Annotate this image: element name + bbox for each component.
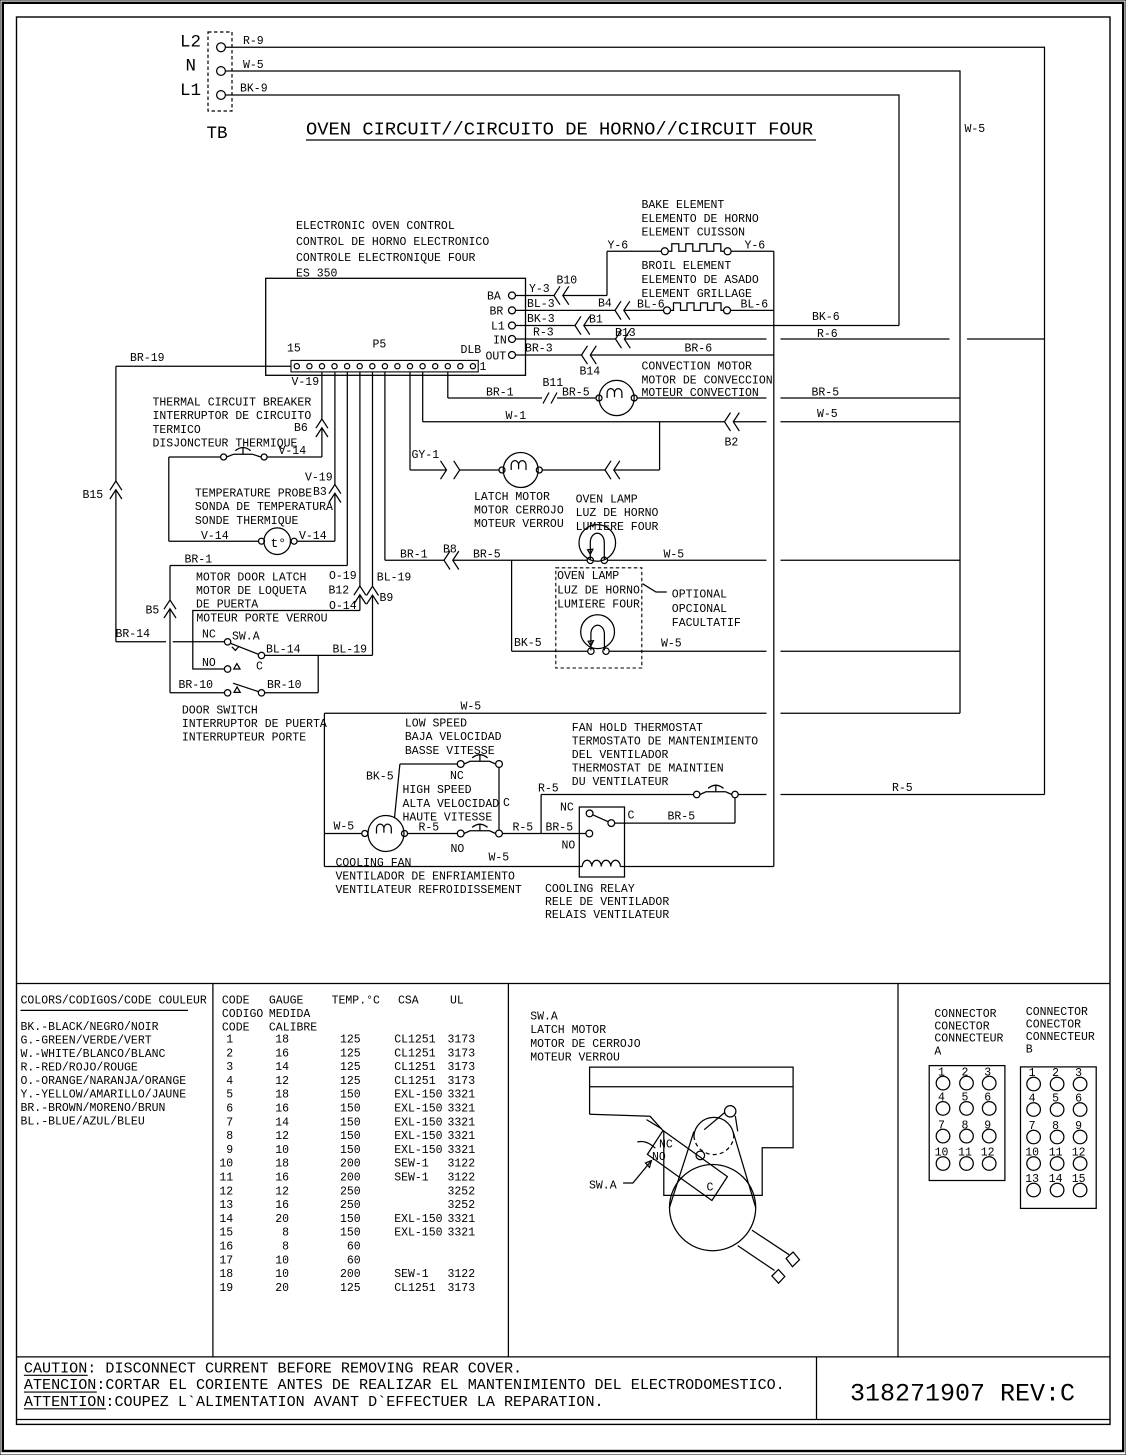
svg-text:NC: NC <box>202 629 216 642</box>
svg-text:TERMICO: TERMICO <box>153 424 201 437</box>
svg-text:V-14: V-14 <box>201 530 229 543</box>
svg-text:MOTEUR PORTE VERROU: MOTEUR PORTE VERROU <box>196 613 327 626</box>
svg-text:6: 6 <box>226 1103 233 1116</box>
connector P5 strip <box>291 360 478 372</box>
svg-text:BK-9: BK-9 <box>240 83 268 96</box>
svg-text:250: 250 <box>340 1199 361 1212</box>
svg-text:V-19: V-19 <box>292 376 320 389</box>
optional oven lamp <box>557 570 640 654</box>
schematic title <box>306 119 816 141</box>
svg-text:15: 15 <box>287 343 301 356</box>
svg-text:12: 12 <box>275 1185 289 1198</box>
svg-text:TEMPERATURE PROBE: TEMPERATURE PROBE <box>195 488 312 501</box>
motor door latch box outline <box>193 611 360 670</box>
svg-text:3321: 3321 <box>448 1089 476 1102</box>
thermal circuit breaker <box>153 397 322 461</box>
svg-text:2: 2 <box>962 1066 969 1079</box>
connector A pin block <box>929 1066 1005 1181</box>
table divider 1 <box>212 984 214 1357</box>
svg-text:NC: NC <box>659 1139 673 1152</box>
pin BR <box>490 306 516 319</box>
svg-text:W-1: W-1 <box>506 410 527 423</box>
node junction to optional lamp <box>511 560 513 651</box>
svg-text:16: 16 <box>275 1103 289 1116</box>
svg-text:MOTEUR VERROU: MOTEUR VERROU <box>474 518 564 531</box>
motor door latch label <box>196 571 328 625</box>
svg-text:B3: B3 <box>313 486 327 499</box>
svg-text:SW.A: SW.A <box>589 1180 617 1193</box>
svg-text:NC: NC <box>450 770 464 783</box>
svg-text:CONNECTEUR: CONNECTEUR <box>1026 1031 1095 1044</box>
low speed NC contact <box>450 755 502 783</box>
svg-text:10: 10 <box>1025 1147 1039 1160</box>
connector B12 chevrons <box>354 586 366 604</box>
svg-text:3122: 3122 <box>448 1158 476 1171</box>
svg-text:EXL-150: EXL-150 <box>394 1130 442 1143</box>
svg-text:15: 15 <box>219 1227 233 1240</box>
svg-text:ELEMENT GRILLAGE: ELEMENT GRILLAGE <box>642 288 753 301</box>
relay coil on W-5 return <box>324 851 773 866</box>
svg-text:LUZ DE HORNO: LUZ DE HORNO <box>557 584 640 597</box>
svg-text:W-5: W-5 <box>664 549 685 562</box>
svg-text:60: 60 <box>347 1254 361 1267</box>
wire W-5 from N to right and down <box>225 59 985 713</box>
svg-text:B6: B6 <box>294 422 308 435</box>
svg-text:B14: B14 <box>580 366 601 379</box>
svg-text:ELEMENTO DE ASADO: ELEMENTO DE ASADO <box>642 274 759 287</box>
bake element <box>608 199 774 255</box>
svg-text:GAUGE: GAUGE <box>269 995 304 1008</box>
svg-text:BK.-BLACK/NEGRO/NOIR: BK.-BLACK/NEGRO/NOIR <box>21 1021 159 1034</box>
svg-text:150: 150 <box>340 1103 361 1116</box>
svg-text:3321: 3321 <box>448 1130 476 1143</box>
svg-text:150: 150 <box>340 1089 361 1102</box>
svg-text:P5: P5 <box>373 339 387 352</box>
svg-text:DU VENTILATEUR: DU VENTILATEUR <box>572 776 669 789</box>
svg-text:W.-WHITE/BLANCO/BLANC: W.-WHITE/BLANCO/BLANC <box>21 1048 166 1061</box>
svg-text:3252: 3252 <box>448 1185 476 1198</box>
svg-text:EXL-150: EXL-150 <box>394 1144 442 1157</box>
svg-text:11: 11 <box>219 1172 233 1185</box>
connector B label <box>1026 1006 1095 1056</box>
svg-text:W-5: W-5 <box>334 821 355 834</box>
svg-text:B9: B9 <box>380 592 394 605</box>
svg-text:17: 17 <box>219 1254 233 1267</box>
hub pin <box>696 1151 705 1160</box>
svg-text:NO: NO <box>652 1151 666 1164</box>
svg-text:7: 7 <box>226 1116 233 1129</box>
svg-text:10: 10 <box>935 1147 949 1160</box>
svg-text:8: 8 <box>282 1227 289 1240</box>
svg-text:NO: NO <box>562 840 576 853</box>
wire R-5 / BR-5 to cooling relay <box>502 821 586 834</box>
svg-text:B: B <box>1026 1043 1033 1056</box>
svg-text:4: 4 <box>226 1075 233 1088</box>
svg-text:BR-1: BR-1 <box>486 386 514 399</box>
svg-text:BASSE VITESSE: BASSE VITESSE <box>405 745 495 758</box>
wire V-19 pin 12 drop with connector B3 <box>305 372 335 541</box>
svg-text:MOTOR DE LOQUETA: MOTOR DE LOQUETA <box>196 585 307 598</box>
svg-text:5: 5 <box>1052 1093 1059 1106</box>
wire BR-19 from P5 pin 15 side to left drop <box>116 352 291 642</box>
svg-text:13: 13 <box>1025 1173 1039 1186</box>
svg-text:NO: NO <box>202 657 216 670</box>
svg-text:10: 10 <box>219 1158 233 1171</box>
svg-text:18: 18 <box>275 1089 289 1102</box>
svg-text:18: 18 <box>275 1158 289 1171</box>
svg-text:OVEN CIRCUIT//CIRCUITO DE HORN: OVEN CIRCUIT//CIRCUITO DE HORNO//CIRCUIT… <box>306 119 813 141</box>
wire BR-14 (dashed run to latch box) <box>116 628 193 642</box>
svg-text:C: C <box>707 1181 714 1194</box>
riser R-5 to fan hold thermostat <box>538 783 694 834</box>
svg-text:BA: BA <box>487 291 501 304</box>
temperature probe <box>169 457 335 555</box>
svg-text:CONECTOR: CONECTOR <box>1026 1019 1081 1032</box>
svg-text:CONTROL DE HORNO ELECTRONICO: CONTROL DE HORNO ELECTRONICO <box>296 236 489 249</box>
svg-text:OPTIONAL: OPTIONAL <box>672 589 727 602</box>
svg-text:4: 4 <box>1029 1093 1036 1106</box>
svg-text:R-5: R-5 <box>538 783 559 796</box>
svg-text:B12: B12 <box>329 585 350 598</box>
svg-text:16: 16 <box>275 1172 289 1185</box>
connector B pin block <box>1021 1067 1097 1209</box>
wire BR-5 convection motor to W-5 bus <box>637 386 960 399</box>
svg-text:2: 2 <box>1052 1067 1059 1080</box>
svg-text:CAUTION: DISCONNECT CURRENT BE: CAUTION: DISCONNECT CURRENT BEFORE REMOV… <box>24 1359 522 1377</box>
svg-text:3321: 3321 <box>448 1227 476 1240</box>
svg-text:BR: BR <box>490 306 504 319</box>
fan hold thermostat <box>572 722 758 798</box>
svg-text:t°: t° <box>271 536 287 551</box>
svg-text:ELECTRONIC OVEN CONTROL: ELECTRONIC OVEN CONTROL <box>296 220 455 233</box>
svg-text:C: C <box>256 661 263 674</box>
latch bracket outline <box>590 1067 794 1195</box>
caution text <box>24 1359 785 1411</box>
svg-text:BL.-BLUE/AZUL/BLEU: BL.-BLUE/AZUL/BLEU <box>21 1116 145 1129</box>
svg-text:CONNECTOR: CONNECTOR <box>934 1008 996 1021</box>
svg-text:150: 150 <box>340 1213 361 1226</box>
svg-text:12: 12 <box>981 1147 995 1160</box>
svg-text:BR-3: BR-3 <box>525 343 553 356</box>
svg-text:COOLING RELAY: COOLING RELAY <box>545 883 635 896</box>
svg-text:EXL-150: EXL-150 <box>394 1116 442 1129</box>
svg-text:INTERRUPTOR DE CIRCUITO: INTERRUPTOR DE CIRCUITO <box>153 410 312 423</box>
svg-text:G.-GREEN/VERDE/VERT: G.-GREEN/VERDE/VERT <box>21 1035 152 1048</box>
wire latch motor to oven lamp branch with riser to W-1 <box>542 422 659 470</box>
svg-text:9: 9 <box>984 1119 991 1132</box>
pin L1 <box>491 321 516 334</box>
svg-text:CONNECTOR: CONNECTOR <box>1026 1006 1088 1019</box>
part number divider <box>816 1357 818 1420</box>
svg-text:EXL-150: EXL-150 <box>394 1213 442 1226</box>
svg-text:16: 16 <box>275 1047 289 1060</box>
connector B14 <box>580 346 601 379</box>
svg-text:15: 15 <box>1072 1173 1086 1186</box>
wire GY-1 from pin 6 to latch motor <box>410 372 499 470</box>
svg-text:COLORS/CODIGOS/CODE COULEUR: COLORS/CODIGOS/CODE COULEUR <box>21 995 207 1008</box>
svg-text:R-6: R-6 <box>817 328 838 341</box>
svg-text:14: 14 <box>1049 1173 1063 1186</box>
svg-text:SONDE THERMIQUE: SONDE THERMIQUE <box>195 515 299 528</box>
connector B5 chevrons <box>164 600 176 618</box>
svg-text:W-5: W-5 <box>243 59 264 72</box>
svg-text:O-19: O-19 <box>329 570 357 583</box>
svg-text:3173: 3173 <box>448 1034 476 1047</box>
svg-text:DOOR SWITCH: DOOR SWITCH <box>182 704 258 717</box>
svg-text:R-3: R-3 <box>533 327 554 340</box>
svg-text:L1: L1 <box>491 321 505 334</box>
svg-text:BK-6: BK-6 <box>812 311 840 324</box>
svg-text:16: 16 <box>219 1241 233 1254</box>
svg-text:A: A <box>934 1045 941 1058</box>
svg-text:3122: 3122 <box>448 1268 476 1281</box>
caution strip rules <box>17 1357 1111 1420</box>
connector B9 chevrons <box>367 586 379 604</box>
cooling fan motor <box>324 816 522 898</box>
svg-text:14: 14 <box>275 1116 289 1129</box>
svg-text:BR-1: BR-1 <box>400 549 428 562</box>
svg-text:RELE DE VENTILADOR: RELE DE VENTILADOR <box>545 896 669 909</box>
wire Y-3 from BA pin with riser to bake element <box>516 251 662 296</box>
svg-text:3173: 3173 <box>448 1047 476 1060</box>
svg-text:B11: B11 <box>543 377 564 390</box>
speed selector common C <box>499 767 510 830</box>
svg-text:GY-1: GY-1 <box>412 449 440 462</box>
svg-text:TB: TB <box>207 124 228 144</box>
svg-text:R-9: R-9 <box>243 35 264 48</box>
connector B10 <box>554 275 577 305</box>
svg-text:3: 3 <box>984 1066 991 1079</box>
svg-text:LUZ DE HORNO: LUZ DE HORNO <box>576 507 659 520</box>
svg-text:9: 9 <box>226 1144 233 1157</box>
svg-text:W-5: W-5 <box>461 701 482 714</box>
svg-text:C: C <box>628 810 635 823</box>
cooling relay <box>545 802 669 923</box>
svg-text:W-5: W-5 <box>661 638 682 651</box>
latch cam (pear shape) <box>669 1117 755 1250</box>
svg-text:125: 125 <box>340 1075 361 1088</box>
svg-text:TEMP.°C: TEMP.°C <box>332 995 380 1008</box>
svg-text:CONTROLE ELECTRONIQUE FOUR: CONTROLE ELECTRONIQUE FOUR <box>296 252 476 265</box>
svg-text:10: 10 <box>275 1268 289 1281</box>
svg-text:150: 150 <box>340 1130 361 1143</box>
svg-text:16: 16 <box>275 1199 289 1212</box>
svg-text:4: 4 <box>938 1092 945 1105</box>
svg-text:CL1251: CL1251 <box>394 1047 436 1060</box>
svg-text:INTERRUPTOR DE PUERTA: INTERRUPTOR DE PUERTA <box>182 718 327 731</box>
wire gauge table header <box>222 995 464 1035</box>
svg-text:3: 3 <box>226 1061 233 1074</box>
wire O-19 / O-14 pin 10 drop with connector B12 <box>329 372 360 613</box>
connector chevrons on lamp branch <box>605 461 620 479</box>
svg-text:BR-5: BR-5 <box>546 821 574 834</box>
svg-text:ATENCION:CORTAR EL CORIENTE AN: ATENCION:CORTAR EL CORIENTE ANTES DE REA… <box>24 1376 785 1394</box>
svg-text:BR-10: BR-10 <box>179 679 214 692</box>
svg-text:W-5: W-5 <box>489 851 510 864</box>
svg-text:EXL-150: EXL-150 <box>394 1089 442 1102</box>
svg-text:SW.A: SW.A <box>530 1011 558 1024</box>
svg-text:THERMAL CIRCUIT BREAKER: THERMAL CIRCUIT BREAKER <box>153 397 312 410</box>
svg-text:R.-RED/ROJO/ROUGE: R.-RED/ROJO/ROUGE <box>21 1062 138 1075</box>
connector A pin numbers <box>935 1066 995 1159</box>
svg-text:R-5: R-5 <box>513 821 534 834</box>
svg-text:SEW-1: SEW-1 <box>394 1172 429 1185</box>
svg-text:VENTILADOR DE ENFRIAMIENTO: VENTILADOR DE ENFRIAMIENTO <box>336 871 516 884</box>
svg-text:150: 150 <box>340 1116 361 1129</box>
svg-text:NC: NC <box>560 802 574 815</box>
svg-text:3: 3 <box>1075 1067 1082 1080</box>
low speed tap wire BK-5 <box>366 718 502 818</box>
pin OUT <box>486 351 516 364</box>
svg-text:MOTOR DOOR LATCH: MOTOR DOOR LATCH <box>196 571 306 584</box>
svg-text:CONVECTION MOTOR: CONVECTION MOTOR <box>642 361 753 374</box>
svg-text:ELEMENT CUISSON: ELEMENT CUISSON <box>642 227 746 240</box>
wire BL-3 from BR pin <box>516 298 664 311</box>
svg-text:C: C <box>503 797 510 810</box>
svg-text:3252: 3252 <box>448 1199 476 1212</box>
wire BR-3 / BR-6 from OUT pin to main drop <box>516 343 774 356</box>
wire BR-1 pin 11 to B5 branch <box>170 372 347 567</box>
connector B8 <box>443 544 459 570</box>
svg-text:8: 8 <box>962 1119 969 1132</box>
colors legend table <box>21 995 207 1129</box>
svg-text:200: 200 <box>340 1158 361 1171</box>
svg-text:3173: 3173 <box>448 1282 476 1295</box>
svg-text:B2: B2 <box>725 437 739 450</box>
svg-text:CODIGO: CODIGO <box>222 1008 264 1021</box>
latch motor <box>474 453 564 532</box>
svg-text:L2: L2 <box>180 33 201 53</box>
svg-text:NO: NO <box>451 843 465 856</box>
svg-text:W-5: W-5 <box>817 408 838 421</box>
electronic oven control U1 label text <box>296 220 489 280</box>
svg-text:5: 5 <box>226 1089 233 1102</box>
wire BK-3 / BK-6 from L1 pin to BK-9 drop <box>516 311 900 326</box>
svg-text:DE PUERTA: DE PUERTA <box>196 599 258 612</box>
svg-text:CONECTOR: CONECTOR <box>934 1021 989 1034</box>
connector B pin numbers <box>1025 1067 1085 1186</box>
svg-text:BR-5: BR-5 <box>812 386 840 399</box>
table divider 2 <box>507 984 509 1357</box>
svg-text:CODE: CODE <box>222 995 250 1008</box>
svg-text:125: 125 <box>340 1061 361 1074</box>
svg-text:B1: B1 <box>589 314 603 327</box>
spade terminal 2 <box>772 1270 785 1284</box>
svg-text:MOTOR DE CONVECCION: MOTOR DE CONVECCION <box>642 374 773 387</box>
svg-text:BR-10: BR-10 <box>267 679 302 692</box>
svg-text:60: 60 <box>347 1241 361 1254</box>
svg-text:20: 20 <box>275 1282 289 1295</box>
wire R-9 from L2 to right edge and down <box>225 35 1044 794</box>
svg-text:19: 19 <box>219 1282 233 1295</box>
connector B15 <box>83 481 122 502</box>
svg-text:BR-6: BR-6 <box>685 343 713 356</box>
svg-text:SEW-1: SEW-1 <box>394 1268 429 1281</box>
svg-text:14: 14 <box>275 1061 289 1074</box>
svg-text:SW.A: SW.A <box>232 631 260 644</box>
svg-text:Y-3: Y-3 <box>529 283 550 296</box>
svg-text:200: 200 <box>340 1268 361 1281</box>
svg-text:BK-3: BK-3 <box>527 313 555 326</box>
svg-text:B8: B8 <box>443 544 457 557</box>
svg-text:20: 20 <box>275 1213 289 1226</box>
svg-text:LUMIERE FOUR: LUMIERE FOUR <box>576 521 659 534</box>
pin IN <box>493 335 516 348</box>
svg-text:CL1251: CL1251 <box>394 1282 436 1295</box>
svg-text:DLB: DLB <box>461 344 482 357</box>
optional oven lamp dashed enclosure <box>556 568 642 668</box>
svg-text:3321: 3321 <box>448 1144 476 1157</box>
wire gauge table rows <box>219 1034 475 1295</box>
svg-text:RELAIS VENTILATEUR: RELAIS VENTILATEUR <box>545 909 669 922</box>
svg-text:6: 6 <box>984 1092 991 1105</box>
svg-text:8: 8 <box>226 1130 233 1143</box>
svg-text:BL-19: BL-19 <box>333 643 368 656</box>
svg-text:125: 125 <box>340 1034 361 1047</box>
svg-text:12: 12 <box>219 1185 233 1198</box>
svg-text:7: 7 <box>938 1119 945 1132</box>
svg-text:DEL VENTILADOR: DEL VENTILADOR <box>572 749 669 762</box>
door switch <box>170 679 327 745</box>
svg-text:HIGH SPEED: HIGH SPEED <box>403 784 472 797</box>
svg-text:12: 12 <box>1072 1147 1086 1160</box>
svg-text:BR-5: BR-5 <box>668 811 696 824</box>
wire B5 vertical branch <box>146 566 171 693</box>
svg-text:UL: UL <box>450 995 464 1008</box>
wire BR-5 relay common to thermostat <box>615 798 735 824</box>
spade terminal 1 <box>786 1252 799 1267</box>
svg-text:BL-3: BL-3 <box>527 298 555 311</box>
svg-text:3173: 3173 <box>448 1075 476 1088</box>
svg-text:8: 8 <box>282 1241 289 1254</box>
svg-text:FACULTATIF: FACULTATIF <box>672 617 741 630</box>
wire BR-1 / BR-5 / W-5 from pin 8 through oven lamp to W-5 bus <box>385 372 960 562</box>
svg-text:7: 7 <box>1029 1120 1036 1133</box>
wire R-3 / R-6 from IN pin to R-9 drop <box>516 327 1045 342</box>
svg-text:13: 13 <box>219 1199 233 1212</box>
connector B11 (splice) <box>543 377 564 404</box>
svg-text:TERMOSTATO DE MANTENIMIENTO: TERMOSTATO DE MANTENIMIENTO <box>572 736 758 749</box>
svg-text:SEW-1: SEW-1 <box>394 1158 429 1171</box>
svg-text:EXL-150: EXL-150 <box>394 1227 442 1240</box>
svg-text:LATCH MOTOR: LATCH MOTOR <box>474 491 550 504</box>
terminal block TB <box>208 32 232 111</box>
svg-text:CSA: CSA <box>398 995 419 1008</box>
svg-text:150: 150 <box>340 1144 361 1157</box>
svg-text:BR.-BROWN/MORENO/BRUN: BR.-BROWN/MORENO/BRUN <box>21 1102 166 1115</box>
svg-text:ATTENTION:COUPEZ L`ALIMENTATIO: ATTENTION:COUPEZ L`ALIMENTATION AVANT D`… <box>24 1393 604 1411</box>
svg-text:B5: B5 <box>146 605 160 618</box>
svg-text:B13: B13 <box>615 327 636 340</box>
table divider 3 <box>897 984 899 1357</box>
svg-text:N: N <box>186 57 197 77</box>
svg-text:CL1251: CL1251 <box>394 1034 436 1047</box>
svg-text:250: 250 <box>340 1185 361 1198</box>
svg-text:CONNECTEUR: CONNECTEUR <box>934 1033 1003 1046</box>
svg-text:V-14: V-14 <box>279 445 307 458</box>
svg-text:3321: 3321 <box>448 1116 476 1129</box>
svg-text:5: 5 <box>962 1092 969 1105</box>
svg-text:3321: 3321 <box>448 1103 476 1116</box>
svg-text:18: 18 <box>275 1034 289 1047</box>
optional note with leader <box>643 584 741 630</box>
svg-text:LUMIERE FOUR: LUMIERE FOUR <box>557 599 640 612</box>
wire R-5 right run to R-9 drop <box>738 782 1044 795</box>
svg-text:BR-5: BR-5 <box>473 549 501 562</box>
svg-text:CL1251: CL1251 <box>394 1075 436 1088</box>
connector on GY-1 (right chevrons) <box>441 461 460 479</box>
svg-text:MOTOR CERROJO: MOTOR CERROJO <box>474 505 564 518</box>
